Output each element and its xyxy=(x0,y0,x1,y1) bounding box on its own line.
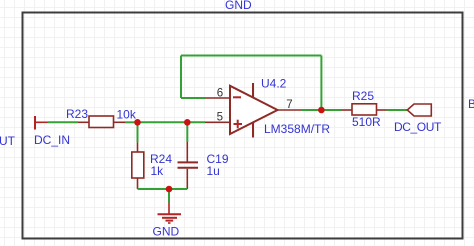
svg-text:1u: 1u xyxy=(207,164,220,178)
svg-text:5: 5 xyxy=(217,112,223,124)
svg-text:7: 7 xyxy=(286,99,292,111)
resistor R23 xyxy=(78,116,125,128)
svg-text:DC_IN: DC_IN xyxy=(34,133,70,147)
capacitor C19 xyxy=(178,142,199,189)
svg-text:1k: 1k xyxy=(151,164,165,178)
svg-text:GND: GND xyxy=(225,0,252,12)
port DC_OUT xyxy=(407,104,431,116)
node B junction xyxy=(184,119,191,126)
svg-text:U4.2: U4.2 xyxy=(261,77,287,91)
svg-text:10k: 10k xyxy=(117,108,137,122)
wire R23 to node A xyxy=(125,121,138,123)
wire DC_IN to R23 xyxy=(48,121,79,123)
svg-text:R25: R25 xyxy=(352,89,374,103)
wire node B to pin 5 xyxy=(187,121,205,123)
resistor R25 xyxy=(341,104,387,115)
port DC_IN xyxy=(35,116,48,130)
wire node B down to C19 xyxy=(186,122,188,142)
pin 6 lead xyxy=(205,97,230,99)
wire feedback top horizontal xyxy=(181,55,321,57)
op-amp U4.2 xyxy=(230,83,278,138)
svg-text:R23: R23 xyxy=(66,107,88,121)
wire feedback pin6 horizontal xyxy=(181,97,205,99)
wire feedback left vertical xyxy=(180,56,182,99)
ground xyxy=(158,203,182,224)
svg-text:LM358M/TR: LM358M/TR xyxy=(264,122,330,136)
wire node A down to R24 xyxy=(137,122,139,142)
svg-text:DC_OUT: DC_OUT xyxy=(394,120,442,134)
wire node D to R25 xyxy=(321,109,341,111)
wire node C down to ground xyxy=(168,189,170,203)
resistor R24 xyxy=(132,142,144,189)
svg-text:UT: UT xyxy=(0,134,16,148)
node A junction xyxy=(134,119,141,126)
svg-text:B: B xyxy=(468,97,474,111)
svg-text:510R: 510R xyxy=(352,115,381,129)
svg-text:6: 6 xyxy=(217,88,223,100)
pin 5 lead xyxy=(205,121,230,123)
wire R25 to DC_OUT port xyxy=(387,109,408,111)
pin 7 lead xyxy=(278,109,303,111)
svg-text:GND: GND xyxy=(153,225,180,239)
wire pin7 to node D xyxy=(302,109,321,111)
node D junction xyxy=(318,107,325,114)
wire bottom R24 to C19 xyxy=(138,188,188,190)
node C junction xyxy=(166,186,173,193)
wire node A to node B xyxy=(138,121,188,123)
wire feedback right vertical xyxy=(320,56,322,111)
